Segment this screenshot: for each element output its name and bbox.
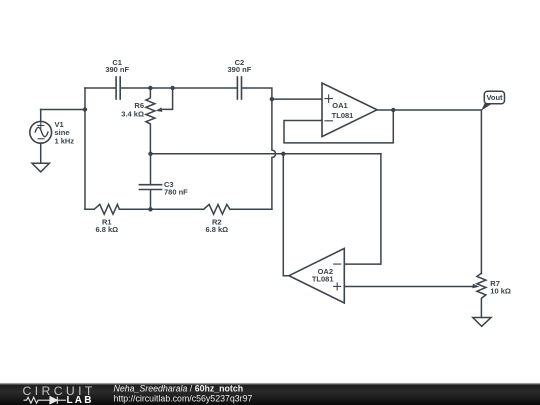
op-amp OA1 triangle bbox=[322, 83, 377, 137]
wire to OA2 minus input bbox=[344, 154, 381, 264]
resistor R2 bbox=[204, 204, 230, 214]
node dot OA1 output junction bbox=[391, 108, 395, 112]
wire OA2 output riser bbox=[283, 154, 289, 276]
op-amp OA2 triangle bbox=[289, 248, 344, 303]
ground below R7 bbox=[473, 318, 491, 327]
node dot OA2 output junction bbox=[281, 152, 285, 156]
wire Vout corner down to R7 bbox=[480, 110, 482, 274]
footer separator line bbox=[0, 383, 540, 384]
potentiometer R7 body bbox=[477, 273, 486, 317]
wire V1 to left vertical bbox=[41, 109, 85, 111]
node dot R6 wiper junction bbox=[170, 86, 174, 90]
svg-text:6.8 kΩ: 6.8 kΩ bbox=[205, 225, 228, 234]
wire top net from left vertical to C1 bbox=[85, 87, 115, 89]
svg-text:3.4 kΩ: 3.4 kΩ bbox=[121, 109, 144, 118]
svg-text:Vout: Vout bbox=[486, 93, 503, 102]
label C1 value bbox=[105, 58, 129, 74]
svg-text:Neha_Sreedharala / 60hz_notch: Neha_Sreedharala / 60hz_notch bbox=[114, 384, 244, 394]
node dot C1-R6 junction bbox=[148, 86, 152, 90]
voltage source V1 bbox=[30, 110, 52, 164]
svg-text:TL081: TL081 bbox=[312, 274, 334, 283]
resistor R1 bbox=[85, 204, 119, 214]
wire vertical x=272 with hop over y=153.8 bbox=[272, 99, 276, 209]
label R6 value bbox=[121, 101, 144, 118]
svg-text:390 nF: 390 nF bbox=[228, 65, 252, 74]
label OA1 bbox=[332, 101, 354, 120]
wire R2 to x=272 corner bbox=[230, 208, 272, 210]
node dot OA1 plus input junction bbox=[270, 97, 274, 101]
wire R1 to R2 bbox=[119, 208, 203, 210]
svg-text:1 kHz: 1 kHz bbox=[55, 136, 75, 145]
label OA2 bbox=[312, 267, 334, 283]
ground below V1 bbox=[32, 163, 49, 172]
wire C2 to corner into OA1 plus input bbox=[242, 88, 322, 99]
svg-text:OA1: OA1 bbox=[332, 101, 347, 110]
wire R6 wiper bbox=[163, 88, 173, 109]
node dot R6-C3 junction bbox=[148, 152, 152, 156]
label C3 value bbox=[164, 180, 188, 196]
op-amp OA2 plus minus bbox=[334, 264, 341, 290]
wire OA1 feedback loop bbox=[284, 110, 393, 143]
label R7 value bbox=[490, 279, 511, 296]
wire C1 to C2 bbox=[121, 87, 237, 89]
svg-text:TL081: TL081 bbox=[332, 111, 354, 120]
label R2 value bbox=[205, 218, 228, 235]
wire OA2 plus to R7 wiper bbox=[344, 286, 472, 288]
capacitor C1 bbox=[116, 77, 120, 99]
svg-text:390 nF: 390 nF bbox=[105, 65, 129, 74]
flag pointer Vout bbox=[481, 103, 491, 110]
svg-text:6.8 kΩ: 6.8 kΩ bbox=[95, 225, 118, 234]
potentiometer R6 body bbox=[146, 88, 155, 154]
svg-text:10 kΩ: 10 kΩ bbox=[490, 287, 511, 296]
capacitor C2 bbox=[237, 77, 241, 99]
label V1 value bbox=[55, 120, 75, 145]
logo wire resistor diode glyph bbox=[24, 397, 67, 404]
flag box Vout bbox=[484, 91, 504, 104]
arrowhead R6 wiper bbox=[156, 107, 163, 112]
wire left vertical bbox=[84, 88, 86, 209]
node dot C3 bottom junction bbox=[148, 207, 152, 211]
svg-text:http://circuitlab.com/c56y5237: http://circuitlab.com/c56y5237q3r97 bbox=[114, 393, 253, 403]
svg-text:780 nF: 780 nF bbox=[164, 188, 188, 197]
svg-text:LAB: LAB bbox=[67, 395, 94, 405]
capacitor C3 bbox=[139, 154, 161, 210]
wire mid horizontal y=153.8 bbox=[151, 153, 381, 155]
arrowhead R7 wiper bbox=[472, 284, 479, 289]
label C2 value bbox=[228, 58, 252, 74]
label R1 value bbox=[95, 218, 118, 235]
wire OA1 output to Vout corner bbox=[377, 109, 481, 111]
op-amp OA1 plus minus bbox=[325, 95, 333, 121]
footer black bar bbox=[0, 384, 540, 405]
node dot V1 junction bbox=[83, 107, 87, 111]
